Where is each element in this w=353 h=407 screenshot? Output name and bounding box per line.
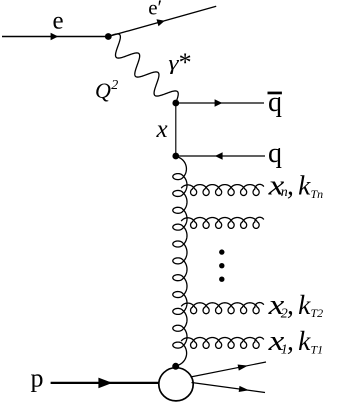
arrow on lower remnant line xyxy=(239,386,249,392)
arrow on proton line xyxy=(98,378,112,389)
vertex dot (e, gamma*) xyxy=(105,33,112,40)
vertical quark line between vertices xyxy=(175,103,177,156)
arrow on qbar line (right) xyxy=(215,99,223,107)
vertex dot (gamma*, qbar) xyxy=(172,100,179,107)
svg-text:e: e xyxy=(53,8,64,35)
svg-text:T2: T2 xyxy=(311,306,324,320)
proton remnant line (upper) xyxy=(191,362,267,377)
svg-text:k: k xyxy=(298,325,311,356)
ellipsis dot 1 xyxy=(219,249,224,254)
incoming electron line e xyxy=(2,36,108,38)
quark line q xyxy=(176,155,265,157)
svg-text:,: , xyxy=(287,170,294,201)
vertex dot (ladder, proton blob) xyxy=(172,363,179,370)
svg-text:q: q xyxy=(268,138,282,169)
svg-text:k: k xyxy=(298,170,311,201)
proton remnant line (lower) xyxy=(192,383,266,393)
svg-text:2: 2 xyxy=(111,78,118,93)
vertical gluon ladder xyxy=(173,156,187,365)
svg-text:*: * xyxy=(179,48,192,77)
svg-text:q: q xyxy=(268,87,282,118)
radiated gluon x_2 xyxy=(181,303,264,314)
radiated gluon x_1 xyxy=(181,337,264,348)
antiquark line qbar xyxy=(176,102,264,104)
incoming proton line p xyxy=(51,382,160,384)
radiated gluon (unlabeled) xyxy=(181,217,264,228)
svg-text:p: p xyxy=(31,363,44,392)
svg-text:k: k xyxy=(298,289,311,320)
svg-text:Q: Q xyxy=(95,78,111,103)
svg-text:T1: T1 xyxy=(311,342,324,356)
proton blob xyxy=(159,368,193,401)
ellipsis dot 2 xyxy=(219,263,224,268)
svg-text:x: x xyxy=(156,116,168,143)
photon wavy line gamma* xyxy=(108,34,178,103)
arrow on electron line xyxy=(51,33,59,40)
ellipsis dot 3 xyxy=(219,277,224,282)
svg-text:,: , xyxy=(287,289,294,320)
arrow on e' line xyxy=(156,19,164,26)
svg-text:Tn: Tn xyxy=(311,187,324,201)
arrow on q line (left) xyxy=(215,152,223,160)
svg-text:,: , xyxy=(287,325,294,356)
svg-text:e′: e′ xyxy=(148,0,162,20)
radiated gluon x_n xyxy=(181,184,264,195)
arrow on upper remnant line xyxy=(238,365,248,371)
vertex dot (q) xyxy=(172,153,179,160)
scattered electron line e' xyxy=(108,6,216,36)
